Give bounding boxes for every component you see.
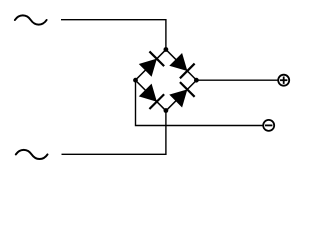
negative output terminal bbox=[263, 120, 274, 131]
diode D3 (left node to bottom node) bbox=[128, 73, 173, 118]
wire bridge right node to positive terminal bbox=[196, 79, 277, 81]
junction dot left node bbox=[133, 78, 138, 83]
diode D4 (bottom node to right node) bbox=[159, 73, 204, 118]
diode D2 (top node to right node) bbox=[159, 42, 204, 87]
AC source bottom (tilde) bbox=[16, 150, 48, 159]
wire bottom AC to bridge bottom node bbox=[62, 111, 166, 155]
wire bridge left node to negative terminal bbox=[136, 80, 263, 125]
wire top AC to bridge top node bbox=[61, 20, 166, 50]
junction dot top node bbox=[164, 47, 169, 52]
junction dot right node bbox=[194, 78, 199, 83]
AC source top (tilde) bbox=[15, 15, 47, 24]
diode D1 (left node to top node) bbox=[128, 42, 173, 87]
positive output terminal bbox=[278, 75, 289, 86]
junction dot bottom node bbox=[164, 108, 169, 113]
